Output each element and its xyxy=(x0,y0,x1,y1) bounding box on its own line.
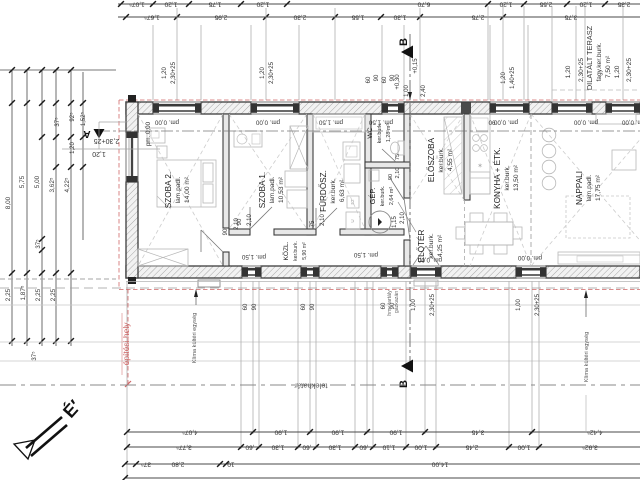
svg-text:1,55: 1,55 xyxy=(351,14,364,21)
svg-text:1,20: 1,20 xyxy=(164,1,177,8)
svg-text:37⁵: 37⁵ xyxy=(141,461,151,468)
svg-text:lam.padl.: lam.padl. xyxy=(586,174,593,201)
svg-text:3,62⁵: 3,62⁵ xyxy=(49,177,56,192)
window W3 top (wc) xyxy=(382,102,404,114)
svg-text:17,75 m²: 17,75 m² xyxy=(595,174,602,201)
svg-text:3,92⁵: 3,92⁵ xyxy=(582,444,598,451)
svg-text:1,00: 1,00 xyxy=(517,444,530,451)
svg-text:1,00: 1,00 xyxy=(414,444,427,451)
svg-text:NAPPALI: NAPPALI xyxy=(575,171,584,205)
dimension chain bottom row A xyxy=(127,431,640,433)
svg-text:ker.burk.: ker.burk. xyxy=(330,178,337,203)
armchair nappali xyxy=(612,150,636,170)
interior wall szoba1/furdo xyxy=(307,114,313,235)
svg-text:75: 75 xyxy=(395,154,401,160)
svg-text:1,20: 1,20 xyxy=(260,67,266,79)
ceiling cross szoba1 xyxy=(229,114,307,229)
window W9 bottom (nappali) xyxy=(516,266,546,278)
svg-text:Klíma kültéri egység: Klíma kültéri egység xyxy=(584,332,590,382)
window W1 top (szoba2) xyxy=(153,102,201,114)
hob burners xyxy=(473,135,480,142)
building site boundary red dashed bottom xyxy=(119,289,640,291)
exterior wall top segment 3 xyxy=(299,102,382,114)
ceiling cross konyha xyxy=(470,114,531,266)
chairs dining xyxy=(470,213,483,222)
section marker A xyxy=(94,129,105,139)
svg-text:B: B xyxy=(398,38,410,46)
svg-text:pm. 0,00: pm. 0,00 xyxy=(517,254,542,261)
exterior wall left upper segment xyxy=(126,102,138,132)
svg-text:1,40+25: 1,40+25 xyxy=(510,66,516,89)
interior wall gep/eloszoba upper xyxy=(404,114,410,198)
dimension chain top row 1 xyxy=(118,3,640,5)
svg-text:2,95: 2,95 xyxy=(214,14,227,21)
svg-text:2,10: 2,10 xyxy=(395,168,401,179)
door szoba2 swing xyxy=(201,230,223,252)
exterior wall top segment 6 xyxy=(592,102,606,114)
dimension chain bottom row B xyxy=(127,446,640,448)
svg-text:3,45: 3,45 xyxy=(471,429,484,436)
north arrow xyxy=(14,417,67,459)
svg-text:+0,30: +0,30 xyxy=(395,74,401,90)
exterior wall left lower segment xyxy=(126,182,138,278)
svg-text:4,55 m²: 4,55 m² xyxy=(447,148,454,171)
svg-text:1,10: 1,10 xyxy=(382,444,395,451)
svg-text:2,30+25: 2,30+25 xyxy=(626,58,633,82)
svg-text:2,30+25: 2,30+25 xyxy=(578,58,585,82)
bathtub furdoszoba xyxy=(313,114,365,132)
desk szoba2 xyxy=(147,128,165,143)
svg-text:1,30: 1,30 xyxy=(393,14,406,21)
interior wall eloter lower xyxy=(404,240,410,266)
svg-text:52: 52 xyxy=(350,199,355,205)
svg-text:1,52⁵: 1,52⁵ xyxy=(80,111,87,126)
wardrobe szoba2 xyxy=(138,249,188,266)
svg-text:1,00: 1,00 xyxy=(516,299,522,311)
svg-text:90: 90 xyxy=(237,218,243,225)
svg-text:pm. 1,50: pm. 1,50 xyxy=(368,119,393,126)
plot boundary telekhatar xyxy=(0,384,640,386)
building site leader red dashed xyxy=(127,289,129,384)
svg-text:gázkazán: gázkazán xyxy=(394,291,400,313)
svg-text:60: 60 xyxy=(366,76,372,83)
building site boundary red dashed left xyxy=(118,100,120,289)
svg-text:Klíma kültéri egység: Klíma kültéri egység xyxy=(192,313,198,363)
svg-text:1,20: 1,20 xyxy=(92,150,106,157)
svg-text:14,00: 14,00 xyxy=(431,461,448,468)
svg-text:ker.burk.: ker.burk. xyxy=(438,147,445,172)
door wc swing xyxy=(382,149,396,162)
svg-text:2,10: 2,10 xyxy=(247,214,253,226)
svg-text:KÖZL.: KÖZL. xyxy=(282,241,290,260)
svg-text:37⁵: 37⁵ xyxy=(31,351,38,361)
ceiling cross furdoszoba xyxy=(313,114,365,229)
bed fold szoba2 xyxy=(157,196,168,207)
svg-text:10,53 m²: 10,53 m² xyxy=(278,176,285,203)
exterior wall top segment 4 xyxy=(404,102,490,114)
svg-text:4,22⁵: 4,22⁵ xyxy=(64,177,71,192)
svg-text:13,50 m²: 13,50 m² xyxy=(513,164,520,191)
svg-text:2,45: 2,45 xyxy=(465,444,478,451)
svg-text:2,75: 2,75 xyxy=(471,14,484,21)
ceiling cross szoba2 xyxy=(138,114,223,266)
svg-text:8,00: 8,00 xyxy=(5,196,12,209)
svg-text:U: U xyxy=(350,219,355,222)
svg-text:SZOBA 1.: SZOBA 1. xyxy=(258,172,267,208)
toilet wc xyxy=(398,141,404,155)
svg-text:4,25 m²: 4,25 m² xyxy=(437,234,444,257)
dimension chain bottom row C xyxy=(125,463,640,465)
svg-text:,60: ,60 xyxy=(359,444,368,451)
boiler gep xyxy=(369,211,391,233)
chair szoba1 xyxy=(237,134,247,144)
svg-text:KONYHA + ÉTK.: KONYHA + ÉTK. xyxy=(492,147,502,209)
exterior wall bottom segment 1 xyxy=(126,266,242,278)
svg-text:1,87⁵: 1,87⁵ xyxy=(20,285,27,300)
svg-text:hmv tartály: hmv tartály xyxy=(387,290,393,316)
svg-text:90: 90 xyxy=(488,119,495,126)
svg-text:90: 90 xyxy=(223,228,229,235)
exterior wall bottom segment 5 xyxy=(441,266,516,278)
svg-text:DILATÁLT TERASZ: DILATÁLT TERASZ xyxy=(585,25,594,90)
window W2 top (szoba1) xyxy=(251,102,299,114)
interior wall furdo/wc-gep xyxy=(365,114,371,235)
svg-text:2,25: 2,25 xyxy=(35,288,42,301)
svg-text:2,80: 2,80 xyxy=(171,461,184,468)
chain line x83 xyxy=(82,72,84,240)
svg-text:lam.padl.: lam.padl. xyxy=(175,176,182,203)
nightstand szoba2 a xyxy=(157,146,167,158)
svg-text:2,30+25: 2,30+25 xyxy=(94,137,120,144)
svg-text:2,30+25: 2,30+25 xyxy=(430,293,436,316)
svg-text:1,90: 1,90 xyxy=(274,429,287,436)
door furdoszoba swing xyxy=(316,208,337,229)
section line B-B vertical xyxy=(409,34,411,368)
exterior wall bottom segment 2 xyxy=(261,266,301,278)
corridor wall segment c xyxy=(340,229,404,235)
svg-text:SZOBA 2.: SZOBA 2. xyxy=(164,172,173,208)
svg-text:2,55: 2,55 xyxy=(539,1,552,8)
svg-text:6,70: 6,70 xyxy=(417,1,430,8)
section line A-A horizontal xyxy=(98,130,640,132)
entrance door swing xyxy=(413,246,426,265)
svg-text:+0,15: +0,15 xyxy=(413,58,419,74)
svg-text:FÜRDŐSZ.: FÜRDŐSZ. xyxy=(318,170,328,212)
svg-text:1,30: 1,30 xyxy=(271,444,284,451)
svg-text:1,75: 1,75 xyxy=(208,1,221,8)
svg-text:2,40: 2,40 xyxy=(421,85,427,97)
svg-text:2,10: 2,10 xyxy=(320,214,326,226)
svg-text:5,00: 5,00 xyxy=(34,175,41,188)
svg-text:90: 90 xyxy=(388,174,394,180)
dimension chain bottom row D xyxy=(125,477,640,479)
window W8 bottom (gep) xyxy=(381,266,398,278)
dining table xyxy=(465,222,513,245)
svg-text:1,20: 1,20 xyxy=(256,1,269,8)
svg-text:ELŐSZOBA: ELŐSZOBA xyxy=(426,137,436,182)
svg-text:ker.burk.: ker.burk. xyxy=(293,241,299,261)
stove circles nappali xyxy=(542,128,556,142)
svg-text:1,20: 1,20 xyxy=(499,1,512,8)
svg-text:GÉP.: GÉP. xyxy=(368,188,377,205)
svg-text:90: 90 xyxy=(374,74,380,81)
svg-text:2,64 m²: 2,64 m² xyxy=(389,187,395,205)
door eloter sliding xyxy=(404,198,410,240)
building site boundary red dashed top xyxy=(119,99,640,101)
entrance step xyxy=(414,280,438,286)
window left wall xyxy=(126,132,138,182)
svg-text:37⁵: 37⁵ xyxy=(35,239,42,249)
window annotation leaders left xyxy=(99,121,127,123)
svg-text:A: A xyxy=(83,128,90,139)
window W4 top (konyha) xyxy=(490,102,529,114)
svg-text:7,50 m²: 7,50 m² xyxy=(605,55,612,78)
bed szoba2 xyxy=(157,160,216,207)
svg-text:pm. 0,00: pm. 0,00 xyxy=(154,119,179,126)
svg-text:2,35: 2,35 xyxy=(617,1,630,8)
partition dashed konyha/nappali xyxy=(530,114,532,266)
svg-text:1,00: 1,00 xyxy=(411,299,417,311)
rug nappali xyxy=(566,196,630,238)
svg-text:építési hely: építési hely xyxy=(121,322,131,366)
svg-text:2,30: 2,30 xyxy=(293,14,306,21)
svg-text:60: 60 xyxy=(301,303,307,310)
wardrobe szoba1 xyxy=(290,126,308,169)
svg-text:75: 75 xyxy=(310,220,316,227)
svg-text:2,30+25: 2,30+25 xyxy=(269,61,275,84)
window W6 top (nappali) xyxy=(606,102,640,114)
cabinet szoba1 xyxy=(287,190,307,208)
svg-text:,60: ,60 xyxy=(245,444,254,451)
svg-text:3,75: 3,75 xyxy=(564,14,577,21)
svg-text:B: B xyxy=(398,380,410,388)
svg-text:37⁵: 37⁵ xyxy=(54,117,61,127)
svg-text:pm. 0,00: pm. 0,00 xyxy=(493,119,518,126)
svg-text:1,20: 1,20 xyxy=(565,65,572,78)
exterior wall bottom segment 6 xyxy=(546,266,640,278)
dimension chains left block xyxy=(11,70,13,346)
extension lines from building to bottom dims xyxy=(252,281,254,434)
svg-text:92⁵: 92⁵ xyxy=(69,112,76,122)
exterior wall top segment 5 xyxy=(529,102,552,114)
svg-text:3,77⁵: 3,77⁵ xyxy=(176,444,192,451)
kitchen boundary dashed xyxy=(464,200,466,266)
svg-text:1,90: 1,90 xyxy=(331,429,344,436)
sofa nappali xyxy=(558,252,640,264)
window W5 top (terasz door) xyxy=(552,102,592,114)
svg-text:✶: ✶ xyxy=(477,162,483,170)
svg-text:,60: ,60 xyxy=(302,444,311,451)
svg-text:fagy.ker.burk.: fagy.ker.burk. xyxy=(596,42,603,81)
fridge xyxy=(470,172,490,194)
corridor wall segment a xyxy=(229,229,250,235)
svg-text:1,20: 1,20 xyxy=(579,1,592,8)
site lines left xyxy=(0,278,116,280)
svg-text:pm. 0,00: pm. 0,00 xyxy=(621,119,640,126)
section marker B top xyxy=(401,46,413,59)
svg-text:2,25: 2,25 xyxy=(5,288,12,301)
pillows szoba2 xyxy=(203,163,213,182)
kitchen counter xyxy=(470,114,490,194)
chest szoba1 xyxy=(285,171,307,187)
downspout bottom left xyxy=(128,277,136,284)
svg-text:10: 10 xyxy=(227,461,235,468)
ceiling cross nappali xyxy=(531,114,640,266)
wall wc/gep horizontal xyxy=(365,162,410,168)
svg-text:90: 90 xyxy=(310,303,316,310)
washbasin counter furdoszoba xyxy=(343,142,360,160)
chains top terminator xyxy=(0,69,116,71)
svg-text:pm. 0,00: pm. 0,00 xyxy=(573,119,598,126)
svg-text:4,42⁵: 4,42⁵ xyxy=(587,429,603,436)
svg-text:4,07⁵: 4,07⁵ xyxy=(182,429,198,436)
svg-text:60: 60 xyxy=(243,303,249,310)
foundation line below building xyxy=(126,281,640,283)
svg-text:ker.burk.: ker.burk. xyxy=(428,233,435,258)
svg-text:ker.burk.: ker.burk. xyxy=(380,186,386,207)
svg-text:1,20: 1,20 xyxy=(70,142,76,154)
svg-text:pm. 1,50: pm. 1,50 xyxy=(241,253,266,260)
extension lines from building to top dims xyxy=(152,25,154,100)
svg-text:telekhatár: telekhatár xyxy=(294,382,328,391)
window W7 bottom (szoba1) xyxy=(242,266,261,278)
svg-text:2,30+25: 2,30+25 xyxy=(171,61,177,84)
terrace edge dashed top right xyxy=(552,89,640,91)
washing machine gep xyxy=(369,170,379,181)
svg-text:1,07⁵: 1,07⁵ xyxy=(129,1,145,8)
svg-text:WC: WC xyxy=(367,127,374,138)
svg-text:1,20: 1,20 xyxy=(614,65,621,78)
envelope offset dashed gray xyxy=(0,287,640,289)
door main entrance bottom xyxy=(411,266,441,278)
svg-text:1,90: 1,90 xyxy=(389,429,402,436)
svg-text:1,20: 1,20 xyxy=(162,67,168,79)
tv cabinet nappali xyxy=(596,114,636,124)
svg-text:1,15: 1,15 xyxy=(392,216,398,228)
corridor wall segment b xyxy=(274,229,316,235)
interior wall eloszoba/konyha xyxy=(464,114,470,200)
svg-text:ker.burk.: ker.burk. xyxy=(504,165,511,190)
svg-text:pm. 0,00: pm. 0,00 xyxy=(145,121,152,146)
door gep swing xyxy=(390,178,404,200)
desk szoba1 xyxy=(234,131,262,147)
svg-text:1,67⁵: 1,67⁵ xyxy=(144,14,160,21)
exterior wall bottom segment 3 xyxy=(319,266,381,278)
svg-text:6,63 m²: 6,63 m² xyxy=(339,179,346,202)
svg-text:90: 90 xyxy=(252,303,258,310)
exterior wall top segment 2 xyxy=(201,102,251,114)
window W7b bottom (furdoszoba) xyxy=(301,266,319,278)
wardrobe eloszoba xyxy=(444,117,462,194)
ceiling cross eloszoba xyxy=(410,114,464,200)
wall joint block top xyxy=(461,103,471,115)
svg-text:pm. 1,50: pm. 1,50 xyxy=(318,119,343,126)
svg-text:lam.padl.: lam.padl. xyxy=(269,176,276,203)
kitchen sink xyxy=(471,118,488,132)
dimension chain top row 2 xyxy=(118,16,640,18)
svg-text:2,30+25: 2,30+25 xyxy=(535,293,541,316)
svg-text:5,75: 5,75 xyxy=(19,175,26,188)
exterior wall top segment 1 xyxy=(126,102,153,114)
svg-text:pm. 0,00: pm. 0,00 xyxy=(417,256,442,263)
downspout top left xyxy=(128,95,136,102)
svg-text:pm. 1,50: pm. 1,50 xyxy=(353,251,378,258)
svg-text:1,30: 1,30 xyxy=(328,444,341,451)
svg-text:14,00 m²: 14,00 m² xyxy=(184,176,191,203)
interior wall szoba2/szoba1 upper xyxy=(223,114,229,228)
svg-text:2,25: 2,25 xyxy=(50,288,57,301)
door szoba1 swing xyxy=(250,207,272,229)
section marker B bottom xyxy=(401,360,413,373)
interior wall szoba2/szoba1 lower xyxy=(223,252,229,266)
exterior wall bottom segment 4 xyxy=(398,266,411,278)
svg-text:pm. 0,00: pm. 0,00 xyxy=(255,119,280,126)
svg-text:5,90 m²: 5,90 m² xyxy=(302,242,308,260)
AC outdoor unit xyxy=(198,280,220,287)
svg-text:60: 60 xyxy=(382,76,388,83)
svg-text:2,10: 2,10 xyxy=(400,212,406,224)
svg-text:1,20: 1,20 xyxy=(501,72,507,84)
